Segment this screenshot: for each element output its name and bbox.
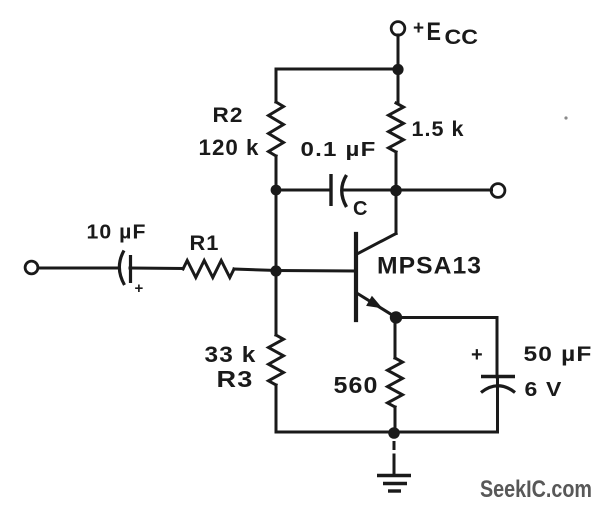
svg-text:+: + — [135, 280, 144, 297]
svg-text:560: 560 — [334, 372, 379, 398]
svg-text:MPSA13: MPSA13 — [377, 253, 482, 280]
svg-text:120 k: 120 k — [199, 135, 260, 160]
svg-text:50 µF: 50 µF — [524, 343, 593, 366]
svg-text:0.1 µF: 0.1 µF — [301, 139, 377, 161]
svg-text:6 V: 6 V — [525, 379, 563, 401]
svg-text:SeekIC.com: SeekIC.com — [480, 476, 592, 503]
svg-text:10 µF: 10 µF — [87, 222, 147, 244]
svg-text:33 k: 33 k — [205, 342, 257, 367]
svg-text:CC: CC — [445, 26, 479, 49]
svg-text:+: + — [471, 344, 483, 366]
svg-text:+: + — [413, 18, 424, 39]
svg-text:R2: R2 — [213, 104, 244, 127]
svg-text:1.5 k: 1.5 k — [412, 118, 465, 141]
svg-text:C: C — [353, 198, 367, 220]
svg-text:R3: R3 — [217, 366, 254, 392]
svg-text:E: E — [427, 18, 442, 46]
svg-text:R1: R1 — [190, 232, 220, 255]
